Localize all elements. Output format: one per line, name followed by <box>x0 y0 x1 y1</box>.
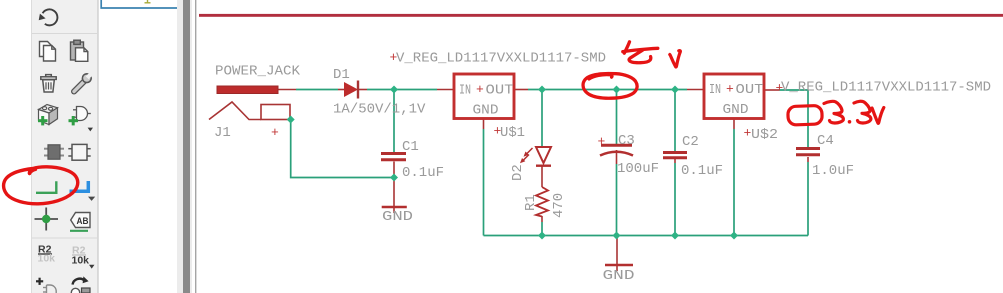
svg-text:C3: C3 <box>618 133 635 149</box>
svg-text:GND: GND <box>473 103 499 119</box>
svg-text:+: + <box>726 82 734 97</box>
svg-text:+: + <box>271 125 279 140</box>
svg-text:IN: IN <box>709 82 721 98</box>
svg-text:U$1: U$1 <box>500 125 525 141</box>
svg-text:J1: J1 <box>214 125 231 141</box>
svg-text:+: + <box>744 126 752 141</box>
svg-text:C2: C2 <box>682 134 699 150</box>
svg-text:0.1uF: 0.1uF <box>402 165 444 181</box>
svg-text:OUT: OUT <box>736 82 764 98</box>
svg-text:AB: AB <box>77 216 89 227</box>
svg-text:+: + <box>776 81 784 96</box>
svg-text:10k: 10k <box>72 255 90 267</box>
svg-text:0.1uF: 0.1uF <box>681 163 723 179</box>
svg-text:+: + <box>476 82 484 97</box>
svg-text:10k: 10k <box>38 253 56 265</box>
svg-text:+: + <box>390 50 398 65</box>
svg-text:U$2: U$2 <box>751 127 778 143</box>
svg-text:IN: IN <box>459 83 471 99</box>
svg-text:C1: C1 <box>402 139 419 155</box>
svg-text:R1: R1 <box>523 194 539 211</box>
svg-text:+: + <box>494 124 502 139</box>
svg-text:GND: GND <box>723 102 749 118</box>
svg-text:D2: D2 <box>510 164 526 181</box>
svg-text:470: 470 <box>551 193 567 218</box>
svg-text:POWER_JACK: POWER_JACK <box>215 64 301 80</box>
svg-text:GND: GND <box>603 268 635 284</box>
svg-text:V_REG_LD1117VXXLD1117-SMD: V_REG_LD1117VXXLD1117-SMD <box>396 51 606 67</box>
svg-text:V_REG_LD1117VXXLD1117-SMD: V_REG_LD1117VXXLD1117-SMD <box>781 80 991 96</box>
svg-text:1.0uF: 1.0uF <box>812 163 854 179</box>
svg-text:GND: GND <box>382 209 413 225</box>
svg-text:1A/50V/1,1V: 1A/50V/1,1V <box>333 102 426 118</box>
svg-text:100uF: 100uF <box>617 161 659 177</box>
svg-text:OUT: OUT <box>486 83 514 99</box>
svg-text:C4: C4 <box>817 133 834 149</box>
svg-text:+: + <box>598 134 606 149</box>
svg-text:D1: D1 <box>333 67 350 83</box>
